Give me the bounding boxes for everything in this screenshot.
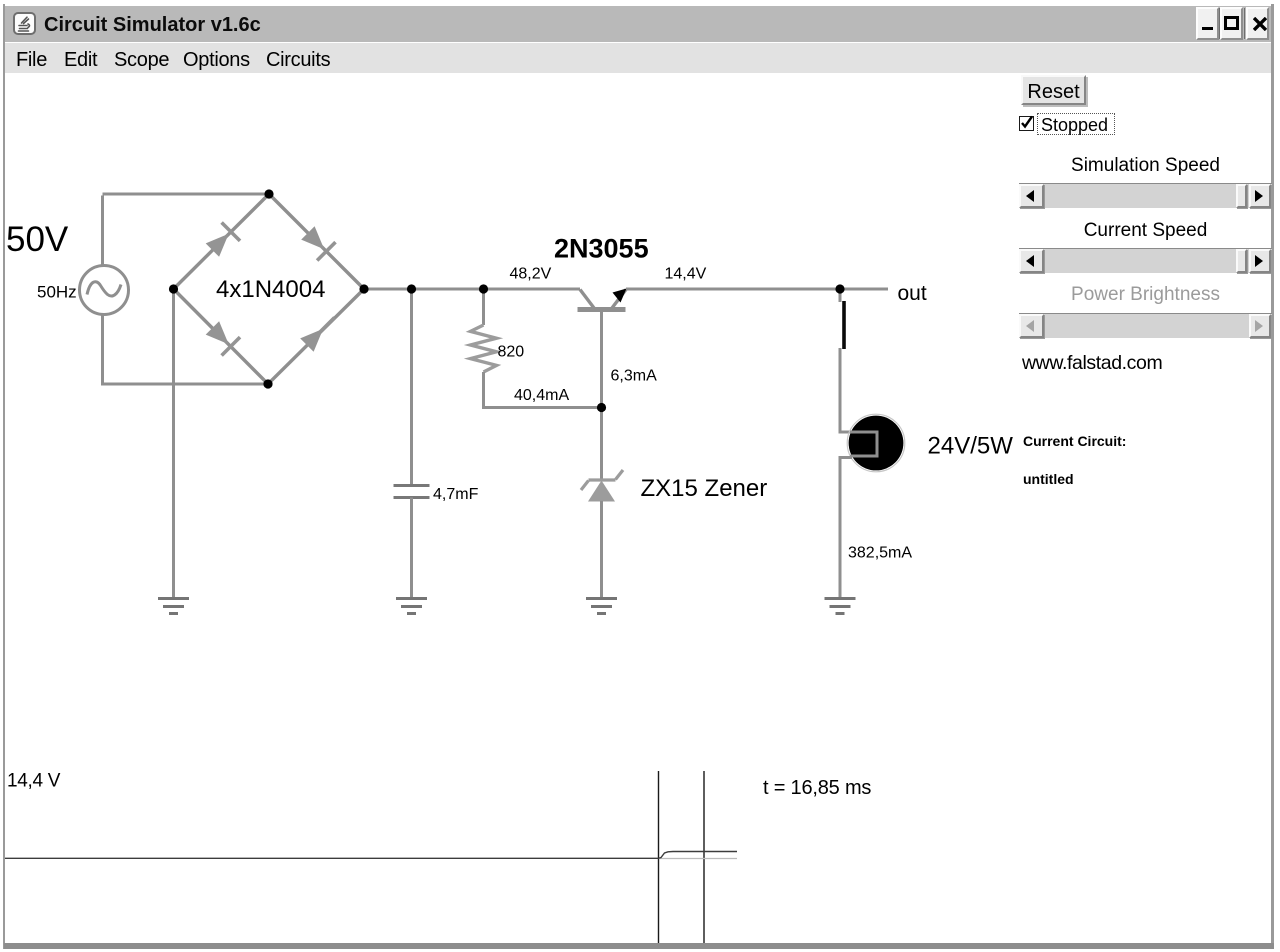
- wire emitter to out node: [626, 288, 840, 291]
- Power Brightness: [1019, 284, 1272, 306]
- svg-text:14,4V: 14,4V: [665, 266, 707, 283]
- diode D4 on B-R edge: [300, 318, 334, 352]
- scrollbar Power Brightness (disabled): [1019, 313, 1272, 338]
- wire main bus: [364, 288, 580, 291]
- svg-text:6,3mA: 6,3mA: [611, 368, 658, 385]
- scope old trace (light): [660, 858, 737, 860]
- wire out stub: [840, 288, 888, 291]
- svg-text:820: 820: [498, 344, 525, 361]
- zener diode Z1 cathode bar: [581, 470, 623, 490]
- scope cursor line 2: [703, 771, 705, 943]
- wire base to zener node: [600, 311, 603, 480]
- scope cursor line 1: [658, 771, 660, 943]
- menu bar: [5, 43, 1271, 73]
- Reset button: [1021, 75, 1086, 105]
- lamp L1 filament loop: [850, 432, 877, 456]
- node dot bridge top: [264, 189, 273, 198]
- node dot capacitor junction: [407, 284, 416, 293]
- svg-text:t = 16,85 ms: t = 16,85 ms: [763, 777, 871, 799]
- wire capacitor top: [410, 289, 413, 485]
- title bar: [5, 6, 1271, 42]
- transistor Q1 emitter arrow: [613, 289, 627, 303]
- ground G2: [396, 599, 427, 614]
- window buttons: [1196, 7, 1219, 40]
- svg-text:2N3055: 2N3055: [554, 234, 649, 264]
- svg-text:382,5mA: 382,5mA: [848, 545, 912, 562]
- svg-text:50V: 50V: [6, 220, 69, 259]
- node dot resistor junction: [479, 284, 488, 293]
- svg-text:ZX15 Zener: ZX15 Zener: [641, 475, 768, 502]
- window bottom border: [4, 943, 1274, 949]
- node dot base-zener junction: [597, 403, 606, 412]
- Current Speed: [1019, 220, 1272, 242]
- bridge edge wire B-R: [268, 289, 364, 384]
- capacitor C1 4,7mF: [394, 486, 430, 498]
- scrollbar Simulation Speed: [1019, 183, 1272, 208]
- resistor R1 820: [471, 325, 497, 372]
- ground G3: [586, 599, 617, 614]
- wire resistor top: [482, 289, 485, 325]
- wire zener to ground: [600, 501, 603, 598]
- transistor Q1 2N3055 collector lead: [580, 290, 594, 309]
- svg-text:24V/5W: 24V/5W: [928, 433, 1014, 460]
- lamp L1 body: [849, 416, 904, 471]
- scope trace: [5, 852, 737, 859]
- lamp L1 outline: [847, 414, 905, 472]
- wire switch to lamp: [840, 348, 852, 434]
- title text: [44, 14, 261, 37]
- Current Circuit: [1023, 433, 1126, 449]
- node dot bridge left: [169, 284, 178, 293]
- voltage source V1 50V 50Hz: [80, 266, 129, 315]
- window right border: [1271, 4, 1274, 949]
- diode D3 on L-B edge: [206, 321, 240, 355]
- ground G4: [825, 599, 856, 614]
- Simulation Speed: [1019, 155, 1272, 177]
- svg-text:out: out: [898, 282, 927, 305]
- switch S1 (closed): [842, 301, 846, 349]
- wire resistor bottom to base node: [482, 372, 602, 408]
- www.falstad.com: [1022, 352, 1162, 375]
- wire out node down: [839, 291, 842, 302]
- node dot out: [835, 284, 844, 293]
- node dot bridge right: [359, 284, 368, 293]
- wire source bottom rail: [101, 315, 268, 385]
- bridge edge wire L-B: [174, 289, 269, 384]
- wire lamp bottom: [840, 456, 852, 598]
- scrollbar Current Speed: [1019, 248, 1272, 273]
- wire top rail from source to bridge top: [103, 194, 270, 265]
- transistor Q1 emitter lead: [612, 290, 626, 309]
- bridge edge wire T-R: [269, 194, 364, 289]
- svg-text:50Hz: 50Hz: [37, 283, 77, 302]
- svg-text:48,2V: 48,2V: [510, 266, 552, 283]
- java icon: [13, 12, 36, 35]
- zener diode Z1 triangle: [588, 481, 615, 502]
- Stopped checkbox: [1019, 116, 1034, 131]
- wire bridge left node to ground: [172, 289, 175, 598]
- transistor Q1 base bar: [578, 307, 626, 312]
- svg-text:4x1N4004: 4x1N4004: [216, 276, 325, 303]
- svg-text:40,4mA: 40,4mA: [514, 387, 569, 404]
- node dot bridge bottom: [263, 379, 272, 388]
- diode D1 on L-T edge: [206, 223, 240, 257]
- wire capacitor bottom: [410, 498, 413, 599]
- diode D2 on T-R edge: [301, 226, 335, 260]
- svg-text:4,7mF: 4,7mF: [433, 486, 479, 503]
- bridge edge wire L-T: [174, 194, 270, 289]
- ground G1: [158, 599, 189, 614]
- window left border: [3, 4, 5, 949]
- svg-text:14,4 V: 14,4 V: [7, 771, 61, 792]
